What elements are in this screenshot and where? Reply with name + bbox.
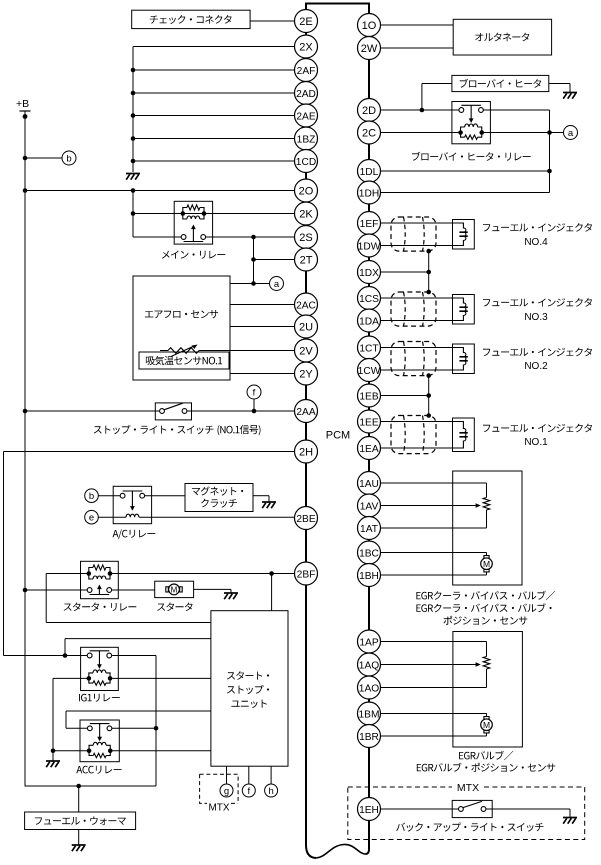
wire ACC contact left <box>66 727 88 729</box>
motor EGR cooler bypass valve <box>481 553 493 576</box>
svg-text:2S: 2S <box>299 232 312 244</box>
wire injector NO.4 drive <box>381 222 453 224</box>
injector フューエル・インジェクタ NO.1 <box>453 418 593 452</box>
wire 1DX <box>381 271 429 273</box>
svg-text:2AF: 2AF <box>297 66 316 77</box>
svg-text:h: h <box>268 786 273 797</box>
heater フューエル・ウォーマ <box>25 812 136 830</box>
svg-text:2BE: 2BE <box>296 514 315 525</box>
motor スタータ <box>155 581 194 611</box>
wire 1O <box>381 24 454 26</box>
heater ブローバイ・ヒータ <box>452 75 549 91</box>
svg-text:2K: 2K <box>299 208 313 220</box>
svg-text:+B: +B <box>16 98 29 110</box>
wire f to 2AA <box>253 399 255 411</box>
svg-text:f: f <box>253 387 256 398</box>
svg-text:a: a <box>274 279 280 290</box>
thermistor 吸気温センサNO.1 <box>139 345 229 370</box>
wire 2H bus to IG1 contact <box>4 653 88 658</box>
svg-text:1CW: 1CW <box>358 366 381 377</box>
connector MTX small dashed box <box>200 774 239 813</box>
wire magnet clutch to ground <box>253 496 269 502</box>
svg-text:1DH: 1DH <box>359 188 379 199</box>
wire injector NO.2 return <box>381 369 453 371</box>
wire IG1 coil to unit <box>110 677 211 679</box>
wire 1AT <box>381 527 487 529</box>
PCM connector terminals left column (2E-2BF) <box>295 10 318 586</box>
wire 1AQ wiper <box>381 662 481 667</box>
wire 1EB <box>381 395 429 397</box>
svg-text:M: M <box>483 559 490 569</box>
svg-text:1BC: 1BC <box>359 548 379 559</box>
wire injector NO.2 drive <box>381 347 453 349</box>
svg-text:1BZ: 1BZ <box>297 134 316 145</box>
wire ground bus lower segment <box>131 191 136 238</box>
svg-text:1BH: 1BH <box>359 571 379 582</box>
ground for fuel warmer <box>72 845 86 851</box>
wire 1BC <box>381 552 487 554</box>
injector フューエル・インジェクタ NO.4 <box>453 220 593 250</box>
wire relay contact to bus <box>483 109 550 111</box>
svg-text:b: b <box>66 153 71 164</box>
svg-text:1AO: 1AO <box>359 683 379 694</box>
svg-text:1EF: 1EF <box>360 219 379 230</box>
wire PCM left column spine with torn-edge curve <box>306 21 316 858</box>
svg-text:1EE: 1EE <box>359 417 378 428</box>
wire 2H bus vertical <box>3 452 5 656</box>
wire starter relay to starter <box>112 589 155 591</box>
wire 2U <box>230 326 295 328</box>
wire 1AV wiper <box>381 503 481 508</box>
ground for starter <box>224 593 238 599</box>
wire b to A/C relay <box>98 495 120 497</box>
motor EGR valve <box>481 714 493 737</box>
wire PCM right column spine with torn-edge curve <box>366 25 370 854</box>
wire unit pin f <box>248 766 250 784</box>
svg-text:1BM: 1BM <box>359 709 380 720</box>
label EGRバルブ <box>417 751 555 772</box>
svg-text:b: b <box>89 491 94 502</box>
wire injector NO.1 drive <box>381 421 453 423</box>
svg-text:1AT: 1AT <box>360 524 378 535</box>
wire 2S left <box>133 236 181 238</box>
svg-text:1DX: 1DX <box>359 268 379 279</box>
svg-text:2X: 2X <box>299 41 313 53</box>
wire IG1/ACC contact bus vertical <box>154 656 159 787</box>
svg-text:NO.4: NO.4 <box>524 237 548 248</box>
wire ACC contact right <box>112 727 156 729</box>
svg-text:1CT: 1CT <box>359 343 378 354</box>
wire injector NO.1 return <box>381 447 453 449</box>
relay メイン・リレー <box>162 201 225 258</box>
wire 2AD <box>133 92 295 94</box>
svg-text:2AE: 2AE <box>296 111 315 122</box>
svg-text:2C: 2C <box>362 127 376 139</box>
svg-text:1AP: 1AP <box>359 637 378 648</box>
valve EGRバルブ box <box>453 632 523 748</box>
wire 1AP <box>381 641 487 643</box>
svg-text:1CD: 1CD <box>296 157 316 168</box>
wire ACC contact branch to unit <box>66 711 211 728</box>
svg-text:2AD: 2AD <box>296 89 316 100</box>
svg-text:1CS: 1CS <box>359 294 379 305</box>
switch バック・アップ・ライト・スイッチ <box>452 800 492 817</box>
wire top bracket joining 2E and 1O <box>306 4 369 26</box>
wire 1BH <box>381 574 487 576</box>
wire IG1 coil left <box>53 677 88 679</box>
svg-text:NO.3: NO.3 <box>524 312 548 323</box>
shield injector NO.2 <box>391 342 436 376</box>
relay A/Cリレー <box>113 486 156 539</box>
relay IG1リレー <box>79 647 120 701</box>
check connector wire to 2E <box>250 20 294 22</box>
svg-text:1DW: 1DW <box>358 241 381 252</box>
svg-text:2V: 2V <box>299 345 313 357</box>
wire ground bus upper segment <box>131 47 136 173</box>
wire 2V <box>199 350 295 352</box>
svg-text:2E: 2E <box>299 16 312 28</box>
ground for blow-by heater <box>563 93 577 99</box>
wire 2BF <box>110 571 295 576</box>
relay ブローバイ・ヒータ・リレー <box>412 102 531 161</box>
node e <box>85 510 99 524</box>
svg-text:1AV: 1AV <box>360 501 379 512</box>
svg-text:g: g <box>224 786 229 797</box>
wire 1AU <box>381 482 487 484</box>
svg-text:1EB: 1EB <box>359 391 378 402</box>
wire blow-by heater to ground <box>549 84 570 93</box>
wire injector NO.4 return <box>381 245 453 247</box>
svg-text:M: M <box>171 585 178 594</box>
node a <box>270 277 284 291</box>
wire bus to node a <box>550 132 565 134</box>
node b2 <box>85 489 99 503</box>
wire bottom feed bus <box>25 784 156 789</box>
wire ACC coil left <box>53 750 88 752</box>
svg-text:NO.1: NO.1 <box>524 437 548 448</box>
wire starter to ground <box>194 589 231 593</box>
wire ACC coil to unit <box>111 750 211 752</box>
wire 2AA right <box>187 409 295 414</box>
node h <box>265 784 278 797</box>
node b <box>62 151 76 165</box>
svg-text:2AC: 2AC <box>296 300 316 311</box>
wire 2C <box>381 132 550 134</box>
svg-text:2BF: 2BF <box>297 569 316 580</box>
svg-text:f: f <box>247 786 250 797</box>
wire IG1 contact to ACC branch <box>112 655 156 657</box>
wire 1DL <box>381 170 550 172</box>
wire 2K <box>133 213 295 215</box>
alternator オルタネータ <box>453 19 551 55</box>
wire 2AA left <box>23 409 160 414</box>
connector チェック・コネクタ <box>132 10 250 28</box>
wire starter relay coil left routing <box>46 574 211 623</box>
wire switch to ground <box>486 809 570 817</box>
wire 1EH to switch <box>381 808 459 810</box>
svg-text:MTX: MTX <box>208 802 229 813</box>
node f <box>247 385 261 399</box>
svg-text:2D: 2D <box>362 105 376 117</box>
shield injector NO.4 <box>391 217 436 251</box>
svg-text:PCM: PCM <box>326 429 350 441</box>
wire 1BR <box>381 735 487 737</box>
svg-text:1AU: 1AU <box>359 479 379 490</box>
wire unit pin g <box>226 766 228 784</box>
label EGRクーラ・バイパス・バルブ <box>416 591 555 625</box>
svg-text:2T: 2T <box>300 254 313 266</box>
svg-text:2W: 2W <box>361 43 378 55</box>
wire to connector b <box>23 156 63 161</box>
potentiometer EGR valve position sensor <box>483 642 490 688</box>
svg-text:2H: 2H <box>299 446 313 458</box>
wire 2D <box>381 108 460 113</box>
wire unit pin h <box>270 766 272 784</box>
wire +B bus vertical <box>24 111 26 786</box>
shield injector NO.3 <box>391 292 436 326</box>
wire 1DH <box>381 192 550 194</box>
wire 2BF branch to unit <box>271 574 273 611</box>
wire e to 2BE <box>98 516 294 518</box>
wire blow-by heater to 2D <box>422 84 452 111</box>
wire 2H <box>4 451 295 453</box>
svg-text:1AQ: 1AQ <box>359 660 379 671</box>
PCM connector terminals right column (1O-1EH) <box>358 14 381 821</box>
wire 2X <box>133 46 295 48</box>
ground for relay coils <box>46 761 60 767</box>
wire 1BM <box>381 713 487 715</box>
ground for magnet clutch <box>262 502 276 508</box>
wire 2Y <box>230 373 295 375</box>
ground for back-up light switch <box>563 818 577 824</box>
node a2 <box>564 126 578 140</box>
power +B terminal <box>16 98 31 119</box>
label バック・アップ・ライト・スイッチ <box>396 823 543 832</box>
potentiometer EGR cooler bypass position sensor <box>483 483 490 528</box>
wire 1AO <box>381 687 487 689</box>
svg-text:2U: 2U <box>299 321 313 333</box>
svg-text:2AA: 2AA <box>296 407 315 418</box>
svg-text:a: a <box>568 128 574 139</box>
wire 2S to 2T branch <box>251 237 256 284</box>
wire 1BZ <box>133 138 295 140</box>
valve EGRクーラ・バイパス・バルブ box <box>453 471 522 585</box>
wire torn-page wave at bottom <box>316 844 366 858</box>
label PCM <box>326 429 350 441</box>
wire 2S right <box>205 235 294 240</box>
svg-text:1EH: 1EH <box>359 805 379 816</box>
wire fuel warmer to ground <box>78 830 80 846</box>
svg-text:e: e <box>89 513 94 524</box>
wire airflow sensor to node a <box>230 281 270 286</box>
wire +B to starter relay contact <box>23 588 87 593</box>
wire 1CD <box>133 160 295 162</box>
svg-text:2Y: 2Y <box>299 368 313 380</box>
wire injector NO.3 drive <box>381 297 453 299</box>
wire IG1 branch to unit <box>65 639 211 656</box>
wire 2O <box>23 188 295 193</box>
svg-text:2O: 2O <box>299 185 314 197</box>
injector フューエル・インジェクタ NO.2 <box>453 344 593 374</box>
wire to fuel warmer <box>78 786 80 812</box>
wire injector NO.3 return <box>381 320 453 322</box>
switch ストップ・ライト・スイッチ <box>155 403 191 420</box>
wire shield drain upper <box>426 249 431 295</box>
relay ACCリレー <box>76 720 121 774</box>
shield injector NO.1 <box>391 416 436 454</box>
wire A/C relay to magnet clutch <box>145 495 186 497</box>
wire shield drain lower <box>426 373 431 418</box>
wire 2W <box>381 47 454 49</box>
wire 2AF <box>133 69 295 71</box>
connector MTX large dashed box <box>348 782 585 840</box>
svg-text:1O: 1O <box>362 20 377 32</box>
relay スタータ・リレー <box>64 561 137 611</box>
unit box スタート・ストップ・ユニット <box>211 611 288 767</box>
wire 2T <box>254 259 295 261</box>
svg-text:M: M <box>483 720 490 730</box>
svg-text:MTX: MTX <box>457 782 479 794</box>
wire IG1 coil ground bus <box>51 678 56 761</box>
svg-text:NO.2: NO.2 <box>524 361 548 372</box>
node g <box>220 784 233 797</box>
svg-text:1BR: 1BR <box>359 732 379 743</box>
ground for sensor bus <box>126 174 140 180</box>
wire 2AE <box>133 115 295 117</box>
injector フューエル・インジェクタ NO.3 <box>453 295 593 325</box>
node f2 <box>242 784 255 797</box>
svg-text:1DA: 1DA <box>359 316 379 327</box>
wire blow-by bus vertical <box>547 110 552 193</box>
wire 2AC <box>230 304 295 306</box>
svg-text:1EA: 1EA <box>359 444 378 455</box>
svg-text:1DL: 1DL <box>360 167 379 178</box>
label ストップ・ライト・スイッチ (NO.1信号) <box>94 425 261 435</box>
sensor エアフロ・センサ <box>133 276 230 380</box>
connector マグネット・クラッチ <box>185 484 253 512</box>
